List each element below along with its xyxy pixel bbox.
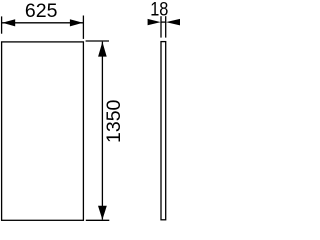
dim 1350 top extension line (86, 40, 109, 42)
dim 625 dimension line (2, 22, 84, 24)
dim 1350 down arrowhead (98, 206, 107, 220)
dim 625 left arrowhead (2, 19, 15, 26)
dim 18 left arrowhead (148, 19, 161, 25)
dim 1350 dimension line (101, 42, 103, 220)
dim 625 right arrowhead (70, 19, 83, 26)
dim 625 right extension line (82, 16, 84, 39)
dim 18 right arrowhead (166, 19, 181, 26)
dim 18 stub dimension line (161, 21, 167, 23)
dim 18 right extension line (165, 16, 167, 37)
dim 625 left extension line (1, 16, 3, 33)
svg-text:18: 18 (150, 0, 168, 20)
svg-text:625: 625 (25, 0, 58, 22)
front view panel outline (2, 42, 84, 220)
dim 1350 up arrowhead (98, 42, 107, 57)
dim 18 left extension line (160, 16, 162, 37)
svg-text:1350: 1350 (103, 99, 125, 143)
side view panel outline (161, 42, 166, 220)
dim 1350 bottom extension line (86, 219, 110, 221)
